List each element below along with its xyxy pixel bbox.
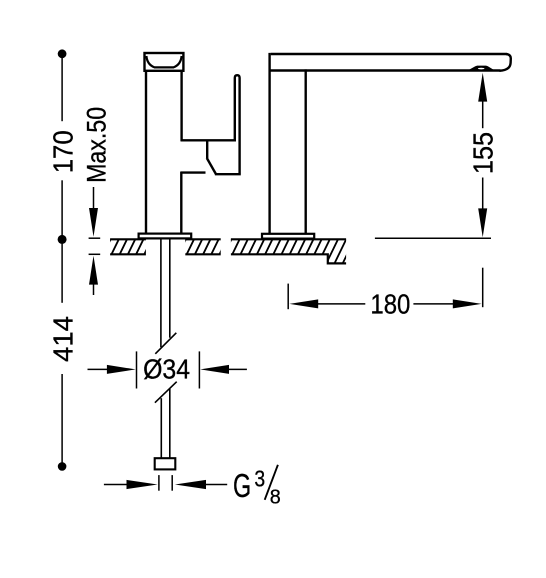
spout base flange <box>262 234 314 239</box>
svg-text:8: 8 <box>270 487 281 509</box>
dot counter level <box>58 235 67 244</box>
pipe break mark lower <box>155 382 177 403</box>
faucet base flange <box>139 234 192 239</box>
countertop slab middle piece <box>185 239 220 254</box>
dimension 170/414 main line <box>61 54 63 467</box>
hatch left piece <box>95 239 160 254</box>
faucet cap (mixer top) <box>145 53 184 71</box>
dimension Max.50 <box>89 187 101 295</box>
counter level reference line <box>375 237 491 239</box>
countertop slab left piece <box>110 239 146 254</box>
180 arrow right <box>453 299 482 308</box>
svg-text:170: 170 <box>47 130 78 173</box>
svg-text:180: 180 <box>370 288 410 319</box>
155 arrow down <box>478 208 487 237</box>
pipe break mark upper <box>155 333 176 354</box>
svg-text:G: G <box>233 467 251 504</box>
dimension 155 <box>482 99 484 211</box>
dimension G3/8 <box>104 475 227 491</box>
hatch middle piece <box>170 239 235 254</box>
155 arrow up <box>478 73 487 102</box>
G3/8 arrow right <box>175 480 206 489</box>
Max.50 arrow down <box>89 208 98 237</box>
dot top <box>58 49 67 58</box>
supply pipe <box>161 239 170 459</box>
dot bottom <box>58 462 67 471</box>
spout arm (right fixture) <box>270 53 511 234</box>
G3/8 connector <box>155 458 176 469</box>
countertop slab right piece with front edge step <box>231 239 346 263</box>
Max.50 arrow up <box>89 256 98 285</box>
dimension Ø34 <box>88 351 247 388</box>
svg-text:414: 414 <box>47 316 78 362</box>
svg-text:155: 155 <box>468 132 499 174</box>
Ø34 arrow right <box>200 365 229 374</box>
handle lever <box>181 75 241 174</box>
Ø34 arrow left <box>107 365 136 374</box>
180 arrow left <box>289 299 318 308</box>
svg-text:3: 3 <box>254 466 265 492</box>
dimension 180 <box>288 268 483 310</box>
G3/8 arrow left <box>127 480 158 489</box>
svg-text:Ø34: Ø34 <box>143 353 190 384</box>
aerator outlet <box>468 66 494 71</box>
svg-text:Max.50: Max.50 <box>81 107 111 183</box>
faucet body <box>146 70 182 234</box>
hatch right piece <box>212 239 355 263</box>
